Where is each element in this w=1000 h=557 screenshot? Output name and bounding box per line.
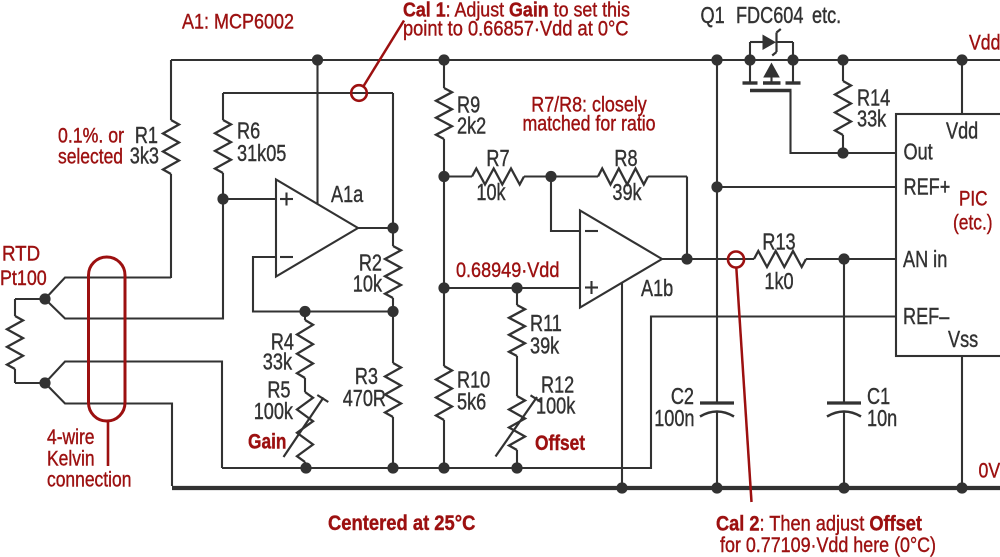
svg-text:39k: 39k [612,180,642,206]
node R12 bottom [511,462,522,473]
svg-text:matched for ratio: matched for ratio [522,113,655,136]
resistor R8 [551,146,687,206]
svg-text:1k0: 1k0 [764,269,793,295]
label Cal 2 note [716,512,936,557]
node Vdd rail / R14 [837,54,848,65]
potentiometer R5 Gain [254,378,329,468]
wire A1a supply pin [316,60,318,204]
callout Cal 1 line [363,21,404,87]
label PIC etc [953,188,993,235]
wire R8 feedback to A1b output [686,177,688,260]
svg-text:A1: MCP6002: A1: MCP6002 [182,10,294,34]
transistor Q1 P-MOSFET [743,29,801,91]
svg-text:Q1: Q1 [701,3,725,29]
svg-text:AN in: AN in [903,247,947,273]
label R7/R8 matching note [522,93,655,136]
node R11 top [511,282,522,293]
svg-text:100n: 100n [654,406,694,432]
svg-text:etc.: etc. [812,3,841,29]
capacitor C1 [827,259,897,488]
resistor R10 [436,288,490,468]
callout Cal 2 circle [728,252,744,268]
wire RTD drive bottom (to 0V rail) [45,383,172,486]
op-amp A1a [276,180,364,277]
node Vdd rail / A1a supply [312,54,323,65]
svg-text:connection: connection [47,469,131,492]
wire A1a output feedback top [223,93,393,228]
svg-text:REF–: REF– [903,304,950,330]
svg-text:39k: 39k [530,334,560,360]
wire top Vdd rail [171,59,1000,61]
wire R2 bottom to R4 top [305,310,393,312]
wire PIC Vdd pin [961,60,963,114]
node C2 / 0V [711,482,722,493]
wire Vdd switched column [716,60,718,403]
resistor R14 [835,60,890,153]
svg-text:Vdd: Vdd [946,119,978,145]
node Vss / 0V [956,482,967,493]
wire A1a plus input [223,198,276,200]
node R3 bottom [387,462,398,473]
svg-text:10k: 10k [476,180,506,206]
label tolerance note [58,125,125,169]
resistor R1 [130,60,179,278]
potentiometer R12 Offset [496,373,576,468]
svg-text:33k: 33k [857,107,887,133]
resistor R7 [444,146,551,206]
resistor R3 [343,312,401,469]
svg-text:Gain: Gain [248,431,286,454]
wire RTD drive top (to A1a plus) [45,199,223,319]
node RTD bottom [39,377,50,388]
svg-text:Out: Out [904,140,933,166]
node A1a output [387,222,398,233]
svg-text:100k: 100k [254,399,294,425]
wire REF+ [717,186,896,188]
node divider output [438,282,449,293]
node A1a plus input [217,193,228,204]
node A1b output [681,253,692,264]
4-wire Kelvin loop [89,257,126,466]
svg-text:Offset: Offset [535,433,586,456]
node Vdd rail / R9 [438,54,449,65]
svg-text:R7: R7 [486,146,509,172]
svg-text:0.68949·Vdd: 0.68949·Vdd [456,259,559,282]
node R10 bottom [438,462,449,473]
resistor R2 [353,228,401,312]
svg-text:Kelvin: Kelvin [47,448,95,471]
svg-text:10k: 10k [353,272,383,298]
node R14 bottom / gate drive [837,147,848,158]
svg-text:A1b: A1b [641,276,673,302]
wire Q1 gate to PIC Out [791,91,897,154]
node Vdd rail / PIC [956,54,967,65]
svg-text:point to 0.66857·Vdd at 0°C: point to 0.66857·Vdd at 0°C [403,17,628,40]
label RTD Pt100 [0,243,47,291]
RTD Pt100 sensor [7,299,45,383]
svg-text:2k2: 2k2 [457,114,486,140]
node C1 / 0V [838,482,849,493]
callout Cal 1 circle [351,85,367,101]
svg-text:Pt100: Pt100 [0,267,47,291]
callout Cal 2 line [736,268,751,503]
node R5 bottom [300,462,311,473]
node REF+ junction [711,181,722,192]
svg-text:0V: 0V [979,460,1000,483]
svg-text:Vdd: Vdd [969,32,1000,55]
node A1b supply / 0V [616,482,627,493]
svg-text:4-wire: 4-wire [47,427,95,450]
resistor R9 [436,60,486,177]
wire R9/R10 divider column [443,177,445,289]
svg-text:for 0.77109·Vdd here (0°C): for 0.77109·Vdd here (0°C) [720,534,936,557]
svg-text:selected: selected [58,146,123,169]
op-amp A1b [580,211,673,308]
svg-text:Cal 2: Then adjust Offset: Cal 2: Then adjust Offset [716,512,922,535]
wire A1b inverting input [551,177,580,232]
node Q1 drain [787,54,798,65]
wire RTD sense bottom (to 0R net) [45,362,222,469]
svg-text:(etc.): (etc.) [953,212,993,235]
svg-text:100k: 100k [536,394,576,420]
node R2 bottom / R3 top [387,306,398,317]
svg-text:RTD: RTD [2,243,40,266]
resistor R13 [754,230,896,295]
svg-text:R13: R13 [762,230,795,256]
svg-text:R8: R8 [614,146,637,172]
wire A1a output [358,227,393,229]
resistor R11 [509,288,562,396]
svg-text:FDC604: FDC604 [736,3,803,29]
wire A1a inverting input loop [253,257,305,312]
wire RTD sense top (to R1) [45,278,171,300]
wire divider to A1b plus input [444,287,580,289]
wire PIC Vss pin to 0V [961,356,963,488]
resistor R4 [263,312,313,379]
resistor R6 [215,93,286,199]
label 4-wire Kelvin connection [47,427,131,492]
node R9 bottom / R7 left [438,171,449,182]
svg-text:3k3: 3k3 [130,144,159,170]
ground rail 0V [172,486,1000,490]
node R4 top [299,306,310,317]
svg-text:REF+: REF+ [904,175,951,201]
svg-text:Centered at 25°C: Centered at 25°C [328,512,475,535]
IC PIC box [896,114,1000,356]
wire A1b output to AN in [662,258,754,260]
svg-text:33k: 33k [263,350,293,376]
node R7/R8 junction [545,171,556,182]
svg-text:Vss: Vss [948,327,978,353]
node R13 right / C1 top [838,253,849,264]
svg-text:5k6: 5k6 [457,390,486,416]
svg-text:A1a: A1a [331,182,364,208]
svg-text:470R: 470R [343,386,386,412]
label Cal 1 note [403,0,630,41]
wire 0R sense net (inner bottom) [222,317,896,469]
svg-text:PIC: PIC [959,188,988,211]
label Q1 FDC604 etc [701,3,842,29]
svg-text:10n: 10n [867,406,897,432]
wire A1b supply pin to ground [621,283,623,489]
node RTD top [39,293,50,304]
capacitor C2 [654,384,734,488]
node Q1 source [744,54,755,65]
node Vdd rail / column [711,54,722,65]
svg-text:31k05: 31k05 [237,141,286,167]
svg-text:0.1%. or: 0.1%. or [58,125,124,148]
